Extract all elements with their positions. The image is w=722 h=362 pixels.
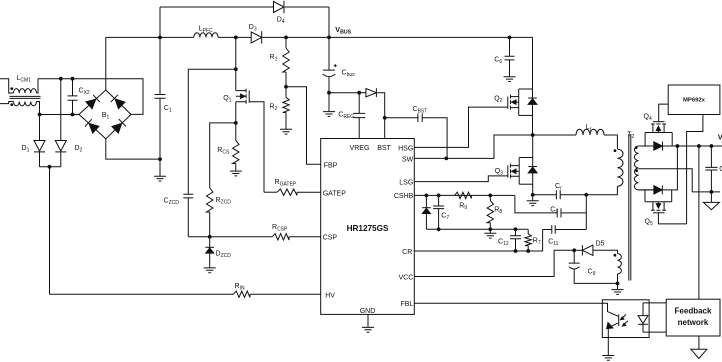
node dot C1 bottom [158, 157, 162, 161]
label R9 [459, 203, 467, 212]
diode D3 [251, 31, 262, 43]
capacitor C11 [543, 225, 587, 234]
label D1 [22, 145, 30, 154]
node dot Q4 out [676, 144, 680, 148]
svg-text:RZCD: RZCD [216, 197, 232, 206]
ground D_ZCD [204, 268, 216, 273]
wire gnd rail CSHB [426, 228, 528, 230]
capacitor C7 [433, 195, 444, 229]
optocoupler U3 box [602, 300, 649, 338]
svg-text:Cbus: Cbus [342, 70, 356, 79]
node dot VREG node [357, 91, 361, 95]
svg-text:BST: BST [377, 145, 391, 152]
inductor L_r [576, 129, 604, 135]
wire Lr to primary [604, 135, 617, 149]
diode Q3 body [528, 167, 537, 195]
svg-text:C6: C6 [494, 57, 502, 66]
diode bridge lower-right arm [112, 119, 126, 133]
pin HV [325, 293, 335, 300]
label R1 [270, 54, 278, 63]
label C9 [588, 269, 596, 278]
ground R_CS [230, 171, 242, 176]
svg-text:R9: R9 [459, 203, 467, 212]
svg-text:Vo: Vo [718, 133, 722, 144]
pin VCC [399, 274, 414, 281]
svg-text:CR: CR [402, 249, 412, 256]
wire Q2 drain [519, 37, 533, 98]
node dot VCC D5 [572, 248, 576, 252]
wire top AC rail [38, 79, 143, 115]
svg-text:CSP: CSP [323, 235, 338, 242]
label C_bus plus [334, 64, 337, 67]
svg-text:C1: C1 [164, 105, 172, 114]
node secondary tap dot [635, 169, 638, 172]
resistor R7 [525, 229, 531, 251]
svg-text:VCC: VCC [399, 274, 414, 281]
inductor T2 secondary winding [634, 146, 638, 190]
svg-text:Q3: Q3 [495, 168, 503, 177]
pin CR [402, 249, 412, 256]
svg-text:RCSP: RCSP [272, 224, 288, 233]
svg-text:R8: R8 [494, 207, 502, 216]
wire opto LED cathode out [643, 331, 666, 333]
wire bottom AC rail [40, 114, 80, 116]
node secondary phase dot [635, 146, 638, 149]
diode bridge lower-left arm [85, 119, 99, 133]
svg-text:R7: R7 [533, 238, 541, 247]
wire Q1 source sense [210, 123, 236, 188]
svg-text:HV: HV [325, 293, 335, 300]
capacitor C9 [569, 250, 618, 283]
svg-text:R2: R2 [270, 104, 278, 113]
label R_CS [217, 147, 230, 156]
pin GND [360, 308, 376, 315]
svg-text:D2: D2 [75, 145, 83, 154]
svg-text:Q5: Q5 [645, 219, 653, 228]
node primary phase dot [614, 149, 617, 152]
ground Q3 source [527, 195, 539, 206]
resistor R2 [283, 87, 289, 130]
diode D4 [274, 1, 285, 13]
node dot C12 top [514, 227, 518, 231]
diode bridge upper-left arm [86, 95, 100, 109]
wire LSG to Q3 gate [414, 176, 508, 182]
wire MP692x to Q5 gate [687, 115, 703, 224]
ground C1 [154, 159, 166, 181]
capacitor C1 [155, 37, 166, 159]
resistor R9 [455, 192, 472, 198]
wire GATEP right [297, 191, 321, 193]
pin LSG [399, 180, 413, 187]
pin SW [402, 156, 414, 163]
op-amp U2 MP692x box [668, 85, 720, 115]
node dot FB tap [697, 144, 701, 148]
pin FBL [400, 301, 413, 308]
diode Q2 body [528, 98, 537, 135]
label C12 [498, 239, 509, 248]
svg-text:CREG: CREG [338, 112, 354, 121]
node dot C1 top [158, 36, 162, 40]
node dot aux gnd [616, 282, 620, 286]
svg-text:HR1275GS: HR1275GS [347, 224, 389, 233]
wire Q1 drain [235, 37, 237, 90]
label C_X2 [79, 88, 90, 97]
node dot Cout bottom [710, 190, 714, 194]
node aux phase dot [614, 254, 617, 257]
capacitor C_ZCD [183, 194, 209, 237]
wire HV line left [50, 293, 234, 295]
inductor T2 aux winding [618, 254, 622, 274]
node dot D1 tap [38, 113, 42, 117]
wire ZCD cap link [188, 69, 236, 194]
wire resonant node down [585, 195, 587, 230]
svg-text:D1: D1 [22, 145, 30, 154]
resistor R_ZCD [207, 188, 213, 237]
wire Q3 source [519, 183, 533, 185]
node dot CBST SW [444, 157, 448, 161]
ground aux winding [612, 274, 624, 294]
wire CSP right [289, 236, 321, 238]
capacitor C12 [510, 229, 521, 251]
label L_CM1 [17, 75, 32, 84]
label R_IN [235, 283, 245, 292]
wire diode to BST [377, 93, 385, 139]
svg-text:HSG: HSG [398, 145, 413, 152]
label C_ZCD [164, 198, 180, 207]
wire CSHB to Cs [515, 195, 557, 213]
label C_r [555, 183, 562, 192]
diode D_ZCD [205, 237, 214, 268]
wire CR line [414, 230, 542, 252]
svg-text:LPFC: LPFC [199, 26, 213, 35]
label C_REG [338, 112, 354, 121]
svg-text:GND: GND [360, 308, 376, 315]
diode rectifier upper [654, 142, 663, 151]
svg-text:RGATEP: RGATEP [275, 179, 297, 188]
ground output triangle [703, 192, 719, 210]
svg-text:C9: C9 [588, 269, 596, 278]
node dot Q1 source [234, 121, 238, 125]
capacitor C_X2 [68, 79, 78, 115]
diode D2 [55, 79, 66, 167]
label L_r [586, 124, 592, 133]
capacitor C6 [505, 37, 515, 76]
wire HSG to Q2 gate [414, 107, 508, 147]
feedback network box [666, 299, 720, 336]
capacitor C_BST [385, 114, 447, 159]
svg-text:SW: SW [402, 156, 414, 163]
wire CSHB line [414, 194, 515, 196]
wire Q1 source [235, 102, 237, 123]
ground C6 [504, 77, 516, 82]
wire D1 D2 join [40, 166, 61, 168]
svg-text:Q4: Q4 [644, 114, 652, 123]
transistor Q3 [508, 158, 519, 185]
capacitor C_out [705, 146, 717, 192]
svg-text:Feedback: Feedback [675, 307, 712, 316]
svg-text:D5: D5 [596, 241, 605, 248]
svg-text:FBP: FBP [324, 163, 338, 170]
svg-text:D4: D4 [277, 17, 285, 26]
node dot SW node [531, 133, 535, 137]
label network [678, 318, 709, 327]
label L_PFC [199, 26, 213, 35]
inductor L_CM1 core bars [10, 96, 41, 98]
label Q5 [645, 219, 653, 228]
svg-text:Lr: Lr [586, 124, 592, 133]
wire main bus left [106, 36, 194, 38]
wire bridge bottom to C1 ground [106, 139, 160, 159]
pin CSP [323, 235, 338, 242]
node dot BST corner [383, 116, 387, 120]
label HR1275GS [347, 224, 389, 233]
op-amp U1 HR1275GS box [321, 139, 415, 315]
svg-text:VBUS: VBUS [335, 25, 351, 36]
wire HV line right [250, 293, 321, 295]
wire lower diode to rail [662, 146, 677, 190]
node choke lower phase dot [10, 103, 13, 106]
label D3 [249, 24, 257, 33]
node dot Q1 drain [234, 36, 238, 40]
label B1 [102, 112, 110, 121]
node dot Cout top [710, 144, 714, 148]
svg-text:RIN: RIN [235, 283, 245, 292]
wire resonant to primary [586, 186, 617, 195]
wire CSP left [210, 236, 273, 238]
label C_bus [342, 70, 356, 79]
label R_GATEP [275, 179, 297, 188]
capacitor C_bus [323, 37, 336, 92]
resistor R_CS [233, 123, 239, 171]
wire HV sense down [49, 167, 51, 294]
svg-text:Q1: Q1 [223, 95, 231, 104]
inductor T2 primary winding [617, 149, 623, 186]
wire Q4 gate to MP692x [659, 104, 669, 122]
wire secondary top lead [639, 145, 654, 147]
svg-text:C7: C7 [441, 213, 449, 222]
node dot Q3 source node [531, 193, 535, 197]
node dot ZCD junction [208, 235, 212, 239]
label C1 [164, 105, 172, 114]
resistor R_CSP [272, 234, 289, 240]
svg-text:CBST: CBST [413, 106, 428, 115]
svg-text:B1: B1 [102, 112, 110, 121]
svg-text:R1: R1 [270, 54, 278, 63]
transistor Q2 [508, 89, 519, 115]
pin VREG [350, 145, 370, 152]
wire secondary bottom lead [639, 189, 654, 191]
svg-text:GATEP: GATEP [323, 191, 347, 198]
node dot R7 bottom [526, 249, 530, 253]
wire main bus mid [218, 36, 251, 38]
svg-text:network: network [678, 318, 709, 327]
label D2 [75, 145, 83, 154]
resistor R_GATEP [277, 189, 297, 195]
ground opto emitter [602, 356, 614, 361]
label Q1 [223, 95, 231, 104]
pin CSHB [394, 193, 414, 200]
node dot Cbus bottom [327, 91, 331, 95]
svg-text:DZCD: DZCD [216, 251, 232, 260]
label Feedback [675, 307, 712, 316]
node dot Vbus [327, 36, 331, 40]
diode D1 [34, 115, 45, 167]
svg-text:LCM1: LCM1 [17, 75, 32, 84]
svg-text:Cs: Cs [550, 206, 558, 215]
diode bridge upper-right arm [111, 95, 125, 109]
label D4 [277, 17, 285, 26]
transistor opto phototransistor [602, 303, 618, 355]
wire FBL line [414, 302, 602, 304]
label Q2 [494, 96, 502, 105]
wire SW line [414, 135, 532, 158]
diode rectifier lower [639, 185, 663, 194]
label R8 [494, 207, 502, 216]
diode D5 [574, 245, 617, 256]
node choke upper phase dot [10, 87, 13, 90]
capacitor C_r [533, 190, 587, 199]
resistor R1 [283, 37, 289, 86]
pin HSG [398, 145, 413, 152]
wire D4 bypass left [160, 7, 274, 37]
transistor Q1 [236, 89, 249, 104]
svg-text:CZCD: CZCD [164, 198, 180, 207]
label R2 [270, 104, 278, 113]
node dot CX2 top [71, 77, 75, 81]
wire GATEP left [264, 191, 277, 193]
label C6 [494, 57, 502, 66]
label R_ZCD [216, 197, 232, 206]
ground C_bus [323, 93, 335, 117]
svg-text:D3: D3 [249, 24, 257, 33]
label D5 [596, 241, 605, 248]
label Vout [718, 133, 722, 144]
node dot C6 tap [508, 36, 512, 40]
svg-text:C11: C11 [548, 239, 558, 248]
label R7 [533, 238, 541, 247]
wire Q1 gate lead [249, 102, 264, 192]
svg-text:FBL: FBL [400, 301, 413, 308]
label C7 [441, 213, 449, 222]
wire T2 core [629, 134, 631, 281]
ground feedback triangle [691, 336, 707, 359]
ground R2 [280, 129, 292, 134]
wire choke lower right lead [37, 102, 40, 115]
svg-text:CX2: CX2 [79, 88, 90, 97]
node dot R1 top [284, 36, 288, 40]
resistor R8 [487, 195, 493, 229]
wire FBP link [286, 87, 321, 164]
wire choke upper right lead [37, 79, 39, 93]
capacitor C_REG [353, 93, 365, 139]
node dot D2 tap [59, 77, 63, 81]
pin BST [377, 145, 391, 152]
node dot D1D2 junction [48, 165, 52, 169]
node dot CX2 bottom [71, 113, 75, 117]
wire opto light arrows [621, 315, 628, 327]
label MP692x [683, 98, 706, 104]
capacitor C_s [557, 208, 586, 217]
node dot R1 R2 junction [284, 85, 288, 89]
svg-text:RCS: RCS [217, 147, 230, 156]
svg-text:C12: C12 [498, 239, 509, 248]
node dot C12 bottom [514, 249, 518, 253]
node dot ZCD tap [234, 67, 238, 71]
wire Vout rail [663, 145, 722, 147]
node dot C7 top [437, 194, 441, 198]
bridge rectifier B1 outline [79, 90, 131, 139]
label Q4 [644, 114, 652, 123]
ground GND pin [362, 314, 374, 332]
resistor R_IN [234, 291, 251, 297]
inductor L_PFC [194, 33, 218, 38]
diode bootstrap VREG-BST [359, 88, 376, 97]
wire main bus right [263, 36, 533, 38]
wire Q3 drain [519, 135, 533, 167]
ground R8 [484, 229, 496, 238]
node dot C7 bottom [437, 227, 441, 231]
transistor Q5 [645, 190, 672, 213]
node dot R8 top [488, 194, 492, 198]
wire Q2 source [519, 114, 533, 116]
diode zener CSHB [422, 195, 431, 229]
svg-text:LSG: LSG [399, 180, 413, 187]
node dot zener top [425, 194, 429, 198]
label Q3 [495, 168, 503, 177]
node dot Cr right [584, 193, 588, 197]
wire D4 bypass right [285, 7, 329, 37]
label C_BST [413, 106, 428, 115]
wire SW to Lr [533, 134, 576, 136]
label D_ZCD [216, 251, 232, 260]
label C_out [719, 166, 722, 175]
inductor L_CM1 lower winding [14, 102, 37, 106]
node dot R8 bottom [488, 227, 492, 231]
wire output return rail [692, 191, 720, 193]
wire AC line input top [0, 79, 14, 93]
pin GATEP [323, 191, 347, 198]
label R_CSP [272, 224, 288, 233]
label C11 [548, 239, 558, 248]
pin FBP [324, 163, 338, 170]
transistor Q4 [645, 122, 672, 146]
label C_s [550, 206, 558, 215]
wire AC line input bottom [0, 102, 14, 104]
svg-text:MP692x: MP692x [683, 98, 706, 104]
wire Q5 gate route [658, 213, 686, 224]
wire secondary center tap [639, 169, 693, 192]
wire opto LED anode out [643, 302, 666, 304]
inductor L_CM1 upper winding [14, 89, 37, 93]
wire bridge top to main bus [105, 37, 107, 90]
wire Cbus to VREG node [329, 92, 359, 94]
wire Vout to feedback [698, 146, 700, 299]
wire VCC line [414, 250, 574, 276]
label V_BUS [335, 25, 351, 36]
svg-text:VREG: VREG [350, 145, 370, 152]
svg-text:Q2: Q2 [494, 96, 502, 105]
diode opto LED [638, 303, 648, 332]
label T2 [627, 132, 634, 141]
svg-text:CSHB: CSHB [394, 193, 414, 200]
